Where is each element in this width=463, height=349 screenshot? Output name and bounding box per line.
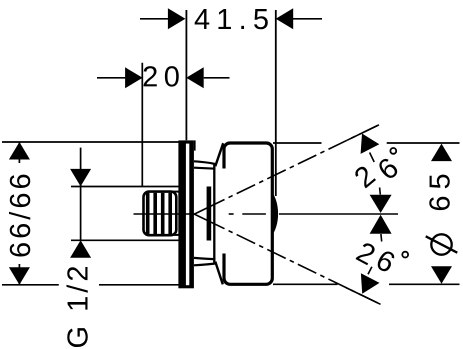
svg-text:65: 65 (424, 167, 456, 211)
svg-text:66/66: 66/66 (5, 170, 37, 258)
svg-text:20: 20 (142, 61, 185, 93)
svg-text:41.5: 41.5 (194, 4, 275, 36)
svg-text:G 1/2: G 1/2 (62, 263, 94, 349)
